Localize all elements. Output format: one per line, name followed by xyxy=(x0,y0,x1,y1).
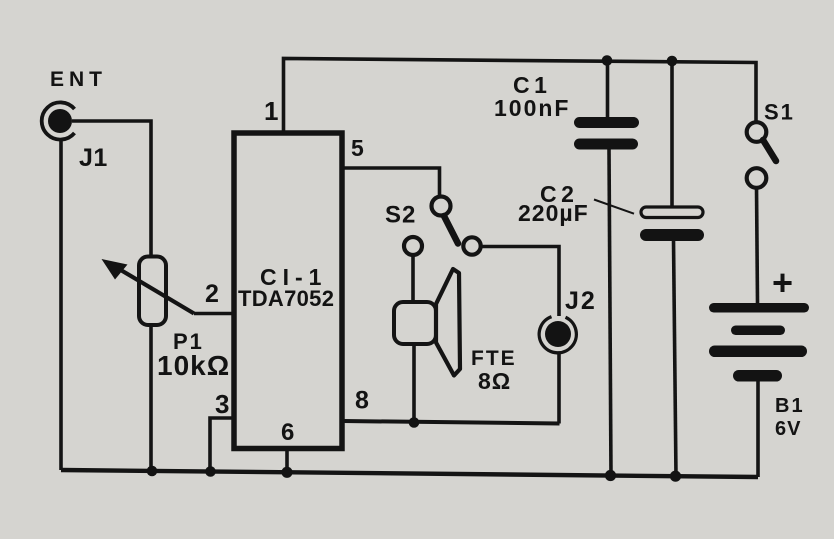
wire P1 bottom to ground rail xyxy=(149,324,153,471)
node speaker / pin8 rail xyxy=(409,417,420,428)
wire C2 callout xyxy=(594,200,634,214)
wire S2 right contact to J2 xyxy=(481,247,559,317)
node ground / pin3 xyxy=(205,466,216,477)
svg-text:B1: B1 xyxy=(775,395,805,417)
svg-text:2: 2 xyxy=(205,280,219,308)
wire J1 down to ground rail xyxy=(59,140,63,470)
node ground / P1 xyxy=(147,466,158,477)
wire pin8 rail xyxy=(344,421,560,424)
wire C1 branch xyxy=(606,61,610,119)
wire S2 left contact to speaker xyxy=(411,255,415,302)
svg-text:8Ω: 8Ω xyxy=(478,368,511,394)
svg-text:8: 8 xyxy=(355,387,369,415)
wire ground rail xyxy=(61,470,758,477)
wire C2 to ground rail xyxy=(674,240,677,476)
connector J2 xyxy=(539,287,597,353)
svg-text:S1: S1 xyxy=(764,100,795,125)
wire pin3 to ground rail xyxy=(210,418,235,472)
svg-text:5: 5 xyxy=(351,135,364,161)
capacitor C2 xyxy=(518,181,704,241)
switch S2 xyxy=(385,197,481,256)
wire C1 to ground rail xyxy=(609,149,611,476)
svg-text:ENT: ENT xyxy=(50,68,107,91)
node ground / pin6 xyxy=(281,467,292,478)
wire pin6 to ground rail xyxy=(285,450,289,473)
svg-text:100nF: 100nF xyxy=(494,95,570,121)
wire C2 branch xyxy=(670,61,674,208)
wire J1 to P1 top xyxy=(72,121,151,257)
svg-text:J1: J1 xyxy=(79,144,108,172)
svg-text:J2: J2 xyxy=(565,287,597,315)
wire top rail pin1 to S1 xyxy=(284,59,757,132)
svg-text:220µF: 220µF xyxy=(518,200,589,226)
node top rail / C1 xyxy=(602,55,613,66)
svg-text:TDA7052: TDA7052 xyxy=(238,286,334,311)
node top rail / C2 xyxy=(667,56,678,67)
svg-text:+: + xyxy=(772,262,793,303)
wire pin5 to S2 common xyxy=(343,168,440,197)
wire speaker to pin8 rail xyxy=(412,344,416,422)
connector J1 xyxy=(42,68,108,172)
svg-text:1: 1 xyxy=(264,96,278,126)
capacitor C1 xyxy=(494,72,639,150)
wire S1 to battery xyxy=(757,187,758,303)
wire J2 to pin8 rail xyxy=(557,354,561,424)
wire pin2 to P1 wiper xyxy=(194,312,235,316)
speaker FTE xyxy=(394,269,517,394)
op-amp U1 CI-1 TDA7052 xyxy=(234,133,342,449)
svg-text:10kΩ: 10kΩ xyxy=(157,350,230,381)
svg-text:6: 6 xyxy=(281,419,294,446)
wire battery to ground rail xyxy=(756,381,760,477)
node ground / C2 xyxy=(670,471,681,482)
potentiometer P1 xyxy=(102,257,231,382)
svg-text:S2: S2 xyxy=(385,202,416,229)
switch S1 xyxy=(747,100,795,188)
svg-text:6V: 6V xyxy=(775,418,801,440)
battery B1 xyxy=(709,262,809,440)
svg-text:FTE: FTE xyxy=(471,347,517,370)
node ground / C1 xyxy=(605,470,616,481)
svg-text:3: 3 xyxy=(215,389,229,419)
